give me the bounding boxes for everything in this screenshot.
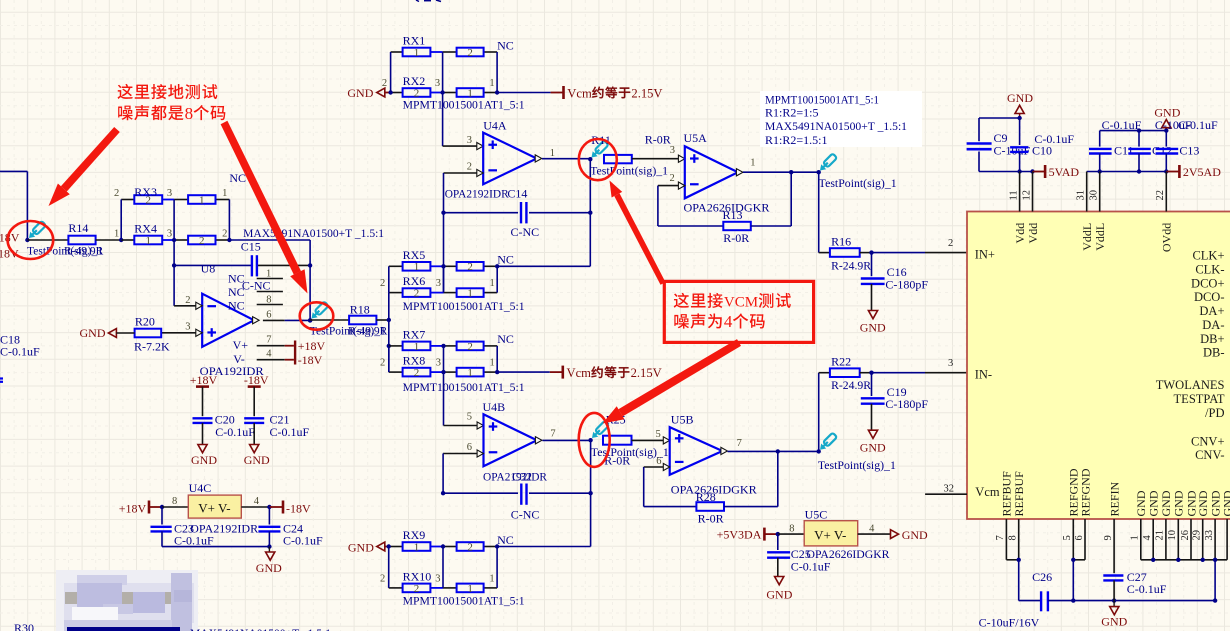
- svg-text:2: 2: [185, 295, 190, 306]
- node TP2 junction: [308, 318, 312, 322]
- wire U4A feedback row: [444, 211, 593, 215]
- svg-text:1: 1: [489, 358, 494, 369]
- svg-text:7: 7: [266, 334, 271, 345]
- svg-text:REFGND: REFGND: [1078, 468, 1092, 516]
- value OPA2626IDGKR (U5C): [807, 547, 890, 561]
- svg-text:6: 6: [656, 456, 661, 467]
- svg-text:OPA2192IDR: OPA2192IDR: [190, 522, 258, 536]
- svg-text:VCM: VCM: [724, 295, 758, 311]
- resistor R18: [349, 303, 376, 325]
- svg-text:2: 2: [382, 78, 387, 89]
- svg-text:1: 1: [414, 261, 420, 273]
- svg-text:6: 6: [1074, 535, 1085, 540]
- resistor RX8: [403, 354, 484, 379]
- svg-text:3: 3: [436, 278, 441, 289]
- value MPMT10015001AT1_5:1 (RX9/RX10): [403, 594, 525, 608]
- wire R28 to output: [724, 449, 780, 506]
- pin names right side (CLK/DCO/DA/DB/CNV): [1156, 249, 1225, 462]
- resistor R28: [696, 490, 724, 526]
- svg-text:2V5AD: 2V5AD: [1183, 165, 1221, 179]
- svg-text:2: 2: [222, 229, 227, 240]
- wire U8 output: [263, 310, 310, 321]
- svg-text:TestPoint(sig)_1: TestPoint(sig)_1: [590, 165, 668, 177]
- svg-text:1: 1: [550, 148, 555, 159]
- svg-text:2.15V: 2.15V: [631, 86, 662, 100]
- svg-text:C-0.1uF: C-0.1uF: [1034, 132, 1074, 146]
- pin numbers RX2 row: [382, 78, 495, 89]
- svg-text:RX3: RX3: [134, 185, 157, 199]
- svg-text:/PD: /PD: [1205, 406, 1224, 420]
- value C-0.1uF (C11): [1102, 118, 1142, 132]
- value MPMT10015001AT1_5:1 (RX7/RX8): [403, 380, 525, 394]
- svg-text:CNV+: CNV+: [1191, 434, 1224, 448]
- value C-0.1uF (C12,C13 overlap): [1155, 118, 1218, 132]
- svg-text:C15: C15: [241, 240, 261, 254]
- svg-text:C-0.1uF: C-0.1uF: [1102, 118, 1142, 132]
- wire RX3/RX4 rows: [121, 200, 229, 241]
- svg-text:R-0R: R-0R: [698, 512, 724, 526]
- testpoint TestPoint(sig)_1 (U5B out): [818, 433, 896, 472]
- svg-text:DCO+: DCO+: [1191, 276, 1224, 290]
- svg-text:CLK+: CLK+: [1192, 249, 1224, 263]
- resistor R13: [723, 208, 751, 245]
- svg-text:U5A: U5A: [684, 131, 708, 145]
- svg-text:DA-: DA-: [1202, 318, 1224, 332]
- wire TP2 to R18: [310, 319, 349, 321]
- svg-text:NC: NC: [497, 533, 514, 547]
- pin numbers bottom: [995, 530, 1215, 541]
- svg-text:GND: GND: [1220, 490, 1230, 516]
- svg-text:R1:R2=1.5:1: R1:R2=1.5:1: [765, 133, 827, 147]
- wire U8 feedback row: [174, 263, 312, 267]
- svg-text:30: 30: [1089, 190, 1100, 201]
- svg-text:32: 32: [944, 484, 955, 495]
- wire REFBUF to C26: [1019, 560, 1040, 601]
- svg-text:C11: C11: [1114, 144, 1134, 158]
- svg-text:1: 1: [414, 541, 420, 553]
- wire U8 pin2: [174, 295, 202, 309]
- node RX9 junctions: [441, 544, 500, 548]
- wire R11 to U5A pin3: [632, 145, 685, 163]
- capacitor C20: [193, 413, 256, 439]
- svg-text:NC: NC: [497, 38, 514, 52]
- svg-text:C13: C13: [1179, 144, 1199, 158]
- annotation text 噪声为4个码: [674, 312, 764, 331]
- ground GND above C13: [1154, 105, 1180, 130]
- svg-text:26: 26: [1180, 530, 1191, 541]
- svg-text:C-NC: C-NC: [511, 508, 540, 522]
- annotation arrow to R25: [603, 339, 742, 423]
- svg-text:+18V: +18V: [119, 501, 147, 515]
- resistor R14: [68, 221, 95, 244]
- capacitor C19: [861, 373, 929, 412]
- wire U5C pin8: [778, 524, 804, 535]
- svg-text:GND: GND: [244, 453, 270, 467]
- svg-text:C14: C14: [507, 186, 527, 200]
- wire U4A pin2: [444, 162, 484, 177]
- svg-text:6: 6: [467, 442, 472, 453]
- wire bottom rail: [1048, 598, 1217, 602]
- svg-text:2: 2: [467, 261, 473, 273]
- wire RX9 row to output net: [497, 546, 590, 548]
- svg-text:C-NC: C-NC: [511, 225, 540, 239]
- node GND/C13 junction: [1164, 128, 1168, 132]
- svg-text:2: 2: [467, 341, 473, 353]
- capacitor C27: [1103, 570, 1167, 601]
- svg-text:TWOLANES: TWOLANES: [1156, 378, 1225, 392]
- svg-text:DB-: DB-: [1203, 346, 1225, 360]
- svg-text:R1:R2=1:5: R1:R2=1:5: [765, 105, 818, 119]
- wire U5A output: [743, 158, 821, 175]
- svg-text:3: 3: [436, 358, 441, 369]
- svg-text:7: 7: [737, 438, 742, 449]
- svg-text:RX9: RX9: [403, 528, 426, 542]
- svg-text:R-49.9R: R-49.9R: [64, 246, 104, 258]
- value MPMT10015001AT1_5:1 (RX5/RX6): [403, 299, 525, 313]
- value MAX5491NA01500+T _1.5:1 (bottom, clipped): [190, 626, 331, 631]
- svg-text:2: 2: [467, 541, 473, 553]
- node U4C pin8 junction: [160, 505, 164, 509]
- svg-text:R-7.2K: R-7.2K: [134, 340, 170, 354]
- svg-text:3: 3: [948, 358, 953, 369]
- op-amp U8: [201, 262, 260, 347]
- power port Vcm~2.15V (bottom): [562, 366, 662, 380]
- wire R13 to output: [751, 170, 794, 226]
- svg-text:OVdd: OVdd: [1160, 223, 1174, 252]
- pin Vdd stubs (11,12): [1020, 172, 1033, 212]
- capacitor C26: [979, 570, 1053, 630]
- svg-text:3: 3: [185, 322, 190, 333]
- svg-text:5: 5: [656, 429, 661, 440]
- annotation arrow to R11: [610, 181, 666, 285]
- ground GND under C19: [860, 430, 886, 454]
- svg-text:21: 21: [1155, 530, 1166, 541]
- pin U8 V- pin4: [233, 349, 294, 366]
- resistor RX4: [134, 222, 215, 247]
- node U4B output junction: [588, 438, 592, 442]
- svg-text:MPMT10015001AT1_5:1: MPMT10015001AT1_5:1: [403, 299, 525, 313]
- power port Vcm~2.15V (top): [562, 86, 662, 100]
- annotation circle (left testpoint): [8, 221, 54, 259]
- svg-text:2: 2: [199, 235, 205, 247]
- svg-text:GND: GND: [860, 321, 886, 335]
- resistor R30 label: [14, 621, 34, 631]
- wire RX9/RX10 rows: [389, 547, 497, 588]
- svg-text:1: 1: [266, 269, 271, 280]
- svg-text:IN-: IN-: [975, 368, 992, 382]
- power -18V port (C21): [244, 373, 269, 416]
- svg-text:U8: U8: [201, 262, 216, 276]
- svg-text:R14: R14: [68, 221, 88, 235]
- svg-text:VddL: VddL: [1080, 223, 1094, 251]
- capacitor C9: [967, 131, 1031, 158]
- resistor RX1: [403, 34, 484, 59]
- wire REFIN to GND: [1113, 601, 1115, 607]
- svg-text:9: 9: [1103, 535, 1114, 540]
- wire R25 to U5B pin5: [632, 429, 670, 444]
- wire network output to feedback node: [229, 240, 310, 320]
- NC label RX1: [497, 38, 514, 52]
- svg-text:DB+: DB+: [1200, 332, 1224, 346]
- svg-text:NC: NC: [497, 332, 514, 346]
- value OPA2192IDR (U4B): [483, 469, 547, 483]
- svg-text:REFIN: REFIN: [1107, 481, 1121, 516]
- NC label RX3: [229, 171, 246, 185]
- wire U5B output: [728, 438, 821, 453]
- svg-text:C-0.1uF: C-0.1uF: [791, 560, 831, 574]
- value R-49.9R overlap (R14): [64, 246, 104, 258]
- svg-text:U4B: U4B: [483, 400, 506, 414]
- node RX7/RX8 junctions: [441, 344, 499, 375]
- svg-text:MPMT10015001AT1_5:1: MPMT10015001AT1_5:1: [403, 380, 525, 394]
- wire C21 to GND: [253, 423, 255, 445]
- svg-text:4: 4: [869, 524, 875, 535]
- ground GND under C21: [244, 445, 270, 468]
- svg-text:R-0R: R-0R: [723, 231, 749, 245]
- testpoint R25: [592, 412, 626, 438]
- ground GND under C25: [766, 577, 792, 602]
- svg-text:1: 1: [1130, 535, 1141, 540]
- svg-text:R22: R22: [831, 354, 851, 368]
- svg-text:29: 29: [1192, 530, 1203, 541]
- capacitor C23: [151, 507, 215, 547]
- node GND/C10 junction: [1017, 116, 1021, 120]
- ground GND at R20: [80, 326, 135, 340]
- pin VddL names (31,30): [1080, 223, 1107, 251]
- wire left input: [0, 171, 27, 240]
- svg-text:1: 1: [199, 194, 205, 206]
- NC label RX7: [497, 332, 514, 346]
- svg-text:2: 2: [380, 358, 385, 369]
- svg-text:1: 1: [467, 288, 473, 300]
- wire C25 to GND: [777, 558, 779, 577]
- svg-text:Vcm: Vcm: [975, 485, 1000, 499]
- testpoint R11: [591, 133, 611, 158]
- svg-text:1: 1: [414, 47, 420, 59]
- wire 5VAD rail: [979, 169, 1045, 173]
- power +5V3DA port (U5C): [717, 528, 778, 542]
- wire 2V5AD rail: [1087, 169, 1180, 173]
- svg-text:3: 3: [467, 135, 472, 146]
- svg-text:R18: R18: [350, 303, 370, 317]
- svg-text:CLK-: CLK-: [1195, 263, 1224, 277]
- svg-text:R-24.9R: R-24.9R: [831, 258, 871, 272]
- node U8 output junction: [308, 318, 312, 322]
- svg-text:1: 1: [222, 188, 227, 199]
- pin REFGND stubs (5,6): [1071, 519, 1085, 562]
- wire RX7 tap to U4B pin5: [444, 372, 484, 429]
- svg-text:RX1: RX1: [403, 34, 426, 48]
- wire U4C pin8: [162, 496, 188, 507]
- svg-text:3: 3: [167, 188, 172, 199]
- pin Vcm stub: [925, 484, 967, 495]
- svg-text:MAX5491NA01500+T _1.5:1: MAX5491NA01500+T _1.5:1: [765, 119, 907, 133]
- wire U4C bottom rail: [162, 544, 272, 548]
- svg-text:10: 10: [1167, 530, 1178, 541]
- svg-text:RX10: RX10: [403, 569, 432, 583]
- note box (white): [760, 91, 922, 147]
- svg-text:R30: R30: [14, 621, 34, 631]
- value R-49.9R overlap (R18): [348, 326, 388, 338]
- node RX5 junctions: [441, 264, 499, 268]
- op-amp U5B: [670, 412, 728, 475]
- wire U4A pin2 net down: [441, 173, 445, 293]
- svg-text:2: 2: [380, 573, 385, 584]
- power +18V port (C20): [190, 373, 218, 416]
- capacitor C12: [1128, 131, 1172, 172]
- power +18V/-18V bars at U8: [294, 339, 326, 367]
- svg-text:8: 8: [789, 524, 794, 535]
- svg-text:1: 1: [489, 78, 494, 89]
- power label +18V (left edge): [0, 231, 20, 245]
- svg-text:2: 2: [467, 162, 472, 173]
- label TestPoint(sig)_1 (R11): [590, 165, 668, 177]
- value MAX5491NA01500+T _1.5:1: [243, 226, 384, 240]
- svg-text:C-180pF: C-180pF: [885, 397, 928, 411]
- node U5C pin8 junction: [776, 532, 780, 536]
- svg-text:RX8: RX8: [403, 354, 426, 368]
- IC U1 ADC body: [967, 212, 1230, 520]
- svg-text:C-10uF/16V: C-10uF/16V: [979, 616, 1040, 630]
- capacitor C21: [244, 413, 309, 439]
- capacitor C32 (C-NC): [511, 484, 540, 522]
- pin OVdd stub (22): [1165, 172, 1167, 212]
- wire fragment top edge: [416, 0, 441, 2]
- wire RX5/RX6 rows: [389, 266, 497, 292]
- svg-text:NC: NC: [228, 299, 245, 313]
- svg-text:MAX5491NA01500+T _1.5:1: MAX5491NA01500+T _1.5:1: [190, 626, 331, 631]
- svg-text:6: 6: [266, 310, 271, 321]
- capacitor C24: [258, 507, 323, 547]
- testpoint TestPoint(sig)_1 (left): [27, 221, 103, 258]
- svg-text:5: 5: [467, 412, 472, 423]
- svg-text:C26: C26: [1032, 570, 1052, 584]
- svg-text:4: 4: [724, 312, 733, 331]
- resistor R22: [830, 354, 871, 392]
- wire U5C pin4: [858, 524, 891, 535]
- svg-text:R16: R16: [831, 234, 851, 248]
- resistor R20: [134, 315, 170, 354]
- wire fragment bottom (R30 row): [67, 627, 180, 631]
- wire U5B out to R22: [819, 373, 830, 452]
- value OPA192IDR (U8): [200, 364, 264, 378]
- svg-text:VddL: VddL: [1093, 223, 1107, 251]
- svg-text:V+: V+: [233, 338, 249, 352]
- svg-text:7: 7: [995, 535, 1006, 540]
- pin VddL stubs (31,30): [1087, 172, 1100, 212]
- wire C11-C13 top rail: [1100, 128, 1167, 132]
- svg-text:V+ V-: V+ V-: [198, 501, 230, 516]
- svg-text:C-0.1uF: C-0.1uF: [215, 425, 255, 439]
- capacitor C13: [1156, 131, 1200, 172]
- svg-text:R-24.9R: R-24.9R: [831, 378, 871, 392]
- annotation arrow to U8 testpoint: [221, 121, 308, 294]
- resistor R25 (R-0R): [603, 436, 632, 468]
- wire output to feedback net: [589, 159, 591, 267]
- wire U4C pin4: [241, 496, 271, 509]
- svg-text:31: 31: [1076, 190, 1087, 201]
- pin numbers RX4 row: [114, 229, 227, 240]
- pin OVdd name (22): [1160, 223, 1174, 252]
- capacitor C10: [1010, 118, 1074, 172]
- svg-text:7: 7: [550, 428, 555, 439]
- svg-text:5VAD: 5VAD: [1049, 165, 1080, 179]
- wire U5A out to R16: [819, 172, 830, 252]
- svg-text:3: 3: [167, 229, 172, 240]
- resistor RX5: [403, 248, 484, 273]
- svg-text:C-0.1uF: C-0.1uF: [1127, 582, 1167, 596]
- NC label RX5: [497, 252, 514, 266]
- svg-text:4: 4: [1142, 535, 1153, 541]
- svg-text:1: 1: [414, 341, 420, 353]
- pin IN- name: [975, 368, 992, 382]
- resistor RX10: [403, 569, 484, 594]
- wire U4B out to feedback net: [590, 440, 592, 546]
- censored block (mosaic): [56, 570, 198, 631]
- svg-text:OPA2192IDR: OPA2192IDR: [445, 186, 509, 200]
- svg-text:2: 2: [414, 367, 420, 379]
- wire RX1/RX2 rows: [391, 52, 498, 93]
- svg-text:3: 3: [435, 573, 440, 584]
- wire GND pins to rail: [1214, 560, 1216, 601]
- svg-text:+5V3DA: +5V3DA: [717, 528, 762, 542]
- svg-text:3: 3: [670, 145, 675, 156]
- op-amp U4B: [483, 400, 542, 466]
- svg-text:GND: GND: [191, 453, 217, 467]
- wire R22 to IC IN-: [860, 358, 967, 375]
- svg-text:R-49.9R: R-49.9R: [348, 326, 388, 338]
- value OPA2192IDR (U4A): [445, 186, 509, 200]
- svg-text:CNV-: CNV-: [1195, 448, 1224, 462]
- pin REFIN name (9): [1107, 481, 1121, 516]
- svg-text:GND: GND: [1007, 91, 1033, 105]
- wire RX8 output to Vcm port 2: [497, 371, 563, 373]
- svg-text:V+ V-: V+ V-: [814, 527, 846, 542]
- power 2V5AD port: [1178, 165, 1221, 179]
- svg-text:OPA2626IDGKR: OPA2626IDGKR: [671, 482, 757, 496]
- svg-text:GND: GND: [860, 440, 886, 454]
- pin numbers RX6 row: [380, 278, 495, 289]
- svg-text:2: 2: [114, 188, 119, 199]
- testpoint TestPoint(sig)_1 (U5A out): [819, 153, 897, 190]
- label TestPoint(sig)_1 (R25): [591, 447, 669, 459]
- resistor RX6: [403, 274, 484, 299]
- capacitor C14: [507, 186, 539, 239]
- svg-text:1: 1: [750, 158, 755, 169]
- svg-text:Vcm: Vcm: [567, 366, 592, 380]
- pin Vdd names (11,12): [1013, 223, 1040, 244]
- svg-text:C12: C12: [1152, 144, 1172, 158]
- wire R18 to RX7/RX8: [376, 318, 391, 322]
- capacitor C25: [767, 534, 831, 574]
- svg-text:+18V: +18V: [298, 339, 326, 353]
- svg-text:1: 1: [467, 367, 473, 379]
- pin numbers RX10 row: [380, 573, 495, 584]
- svg-text:C-NC: C-NC: [242, 279, 271, 293]
- pin REFBUF names (7,8): [1000, 471, 1026, 517]
- wire RX7/RX8 rows: [389, 346, 497, 372]
- ground GND under C27: [1101, 607, 1127, 629]
- svg-text:RX4: RX4: [134, 222, 157, 236]
- svg-text:8: 8: [1008, 535, 1019, 540]
- svg-text:-18V: -18V: [286, 501, 311, 515]
- svg-text:R-0R: R-0R: [645, 133, 671, 147]
- svg-text:TestPoint(sig)_1: TestPoint(sig)_1: [818, 460, 896, 472]
- pin IN+ name: [975, 247, 995, 261]
- svg-text:NC: NC: [228, 272, 245, 286]
- node U4A output junction: [588, 157, 592, 161]
- resistor RX2: [403, 74, 484, 99]
